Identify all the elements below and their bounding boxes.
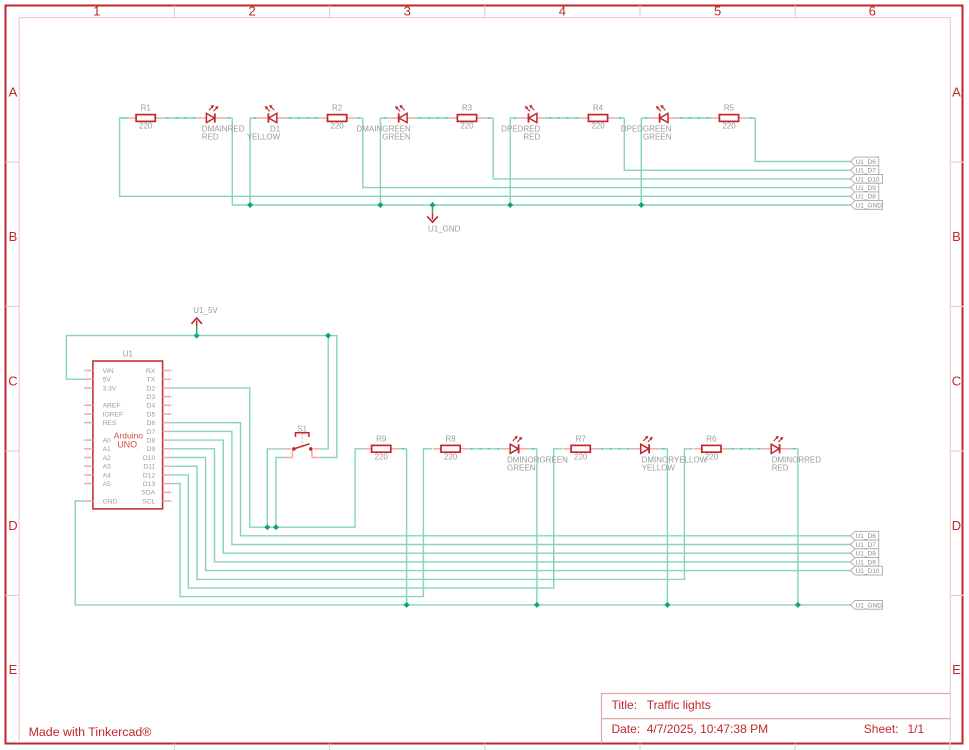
svg-text:VIN: VIN xyxy=(103,368,114,375)
svg-text:A5: A5 xyxy=(103,481,111,488)
ground flag U1_GND xyxy=(427,205,438,222)
svg-text:3.3V: 3.3V xyxy=(103,385,117,392)
svg-text:U1: U1 xyxy=(123,350,134,359)
svg-text:E: E xyxy=(9,662,18,677)
LED DMINORGREEN xyxy=(502,436,529,454)
svg-text:220: 220 xyxy=(722,122,736,131)
svg-text:5: 5 xyxy=(714,3,721,18)
svg-text:A: A xyxy=(9,84,18,99)
svg-text:U1_GND: U1_GND xyxy=(856,202,883,209)
resistor R1 xyxy=(128,115,163,122)
wire xyxy=(659,448,668,450)
LED DPEDGREEN xyxy=(650,105,677,123)
wire xyxy=(641,117,650,119)
U1 pin D11 xyxy=(163,465,172,467)
svg-text:D13: D13 xyxy=(143,481,156,488)
wire xyxy=(510,117,519,119)
svg-text:6: 6 xyxy=(869,3,876,18)
wire U1_GND net (bottom) xyxy=(75,501,850,605)
U1 pin GND xyxy=(84,500,93,502)
wire xyxy=(416,117,450,119)
svg-text:R7: R7 xyxy=(576,434,587,443)
U1 pin D6 xyxy=(163,422,172,424)
wire xyxy=(509,118,511,205)
wire U1_D13 net xyxy=(171,449,432,597)
LED DPEDRED xyxy=(519,105,546,123)
wire xyxy=(354,117,363,119)
wire xyxy=(536,449,538,605)
svg-text:R9: R9 xyxy=(376,434,387,443)
U1 pin A0 xyxy=(84,439,93,441)
junction xyxy=(264,524,270,530)
junction xyxy=(325,333,331,339)
wire U1_D12 net xyxy=(171,449,562,588)
svg-text:YELLOW: YELLOW xyxy=(642,463,676,472)
wire xyxy=(276,458,284,528)
wire xyxy=(677,117,712,119)
svg-text:U1_D7: U1_D7 xyxy=(856,168,877,175)
wire xyxy=(163,117,198,119)
wire xyxy=(545,117,580,119)
wire xyxy=(250,117,259,119)
svg-text:D2: D2 xyxy=(147,385,156,392)
wire U1_D10 net (bottom) xyxy=(171,458,850,571)
LED DMAINRED xyxy=(198,105,225,123)
junction xyxy=(638,202,644,208)
resistor R4 xyxy=(581,115,616,122)
wire U1_D2 net xyxy=(171,388,363,527)
U1 pin D13 xyxy=(163,483,172,485)
svg-text:RES: RES xyxy=(103,420,117,427)
U1 pin D3 xyxy=(163,396,172,398)
wire xyxy=(406,449,408,605)
svg-text:U1_GND: U1_GND xyxy=(856,602,883,609)
net flag U1_D7 (top) xyxy=(850,166,878,175)
svg-text:D: D xyxy=(952,518,961,533)
wire xyxy=(528,448,537,450)
svg-text:Made with Tinkercad®: Made with Tinkercad® xyxy=(29,725,152,739)
U1 pin D12 xyxy=(163,474,172,476)
wire xyxy=(728,448,763,450)
wire U1_D7 net xyxy=(624,118,850,170)
svg-text:B: B xyxy=(9,229,18,244)
svg-text:220: 220 xyxy=(591,122,605,131)
svg-text:RX: RX xyxy=(146,368,156,375)
svg-text:R3: R3 xyxy=(462,104,473,113)
svg-text:TX: TX xyxy=(147,377,156,384)
svg-text:Traffic lights: Traffic lights xyxy=(647,698,711,712)
U1 pin RX xyxy=(163,370,172,372)
wire U1_D6 net xyxy=(755,118,850,162)
wire U1_D7 net (bottom) xyxy=(171,431,850,544)
wire xyxy=(267,449,284,527)
junction xyxy=(247,202,253,208)
svg-text:GREEN: GREEN xyxy=(382,133,411,142)
svg-text:AREF: AREF xyxy=(103,403,121,410)
wire xyxy=(120,117,129,119)
svg-text:U1_D9: U1_D9 xyxy=(856,559,877,566)
wire U1_GND net xyxy=(232,118,850,205)
svg-text:D8: D8 xyxy=(147,438,156,445)
svg-text:RED: RED xyxy=(772,463,789,472)
wire xyxy=(285,117,319,119)
net flag U1_D8 (bottom) xyxy=(850,549,878,558)
svg-text:GREEN: GREEN xyxy=(507,463,536,472)
svg-text:R5: R5 xyxy=(724,104,735,113)
resistor R5 xyxy=(712,115,747,122)
svg-text:A2: A2 xyxy=(103,455,111,462)
net flag U1_D8 (top) xyxy=(850,192,878,201)
svg-text:Title:: Title: xyxy=(612,698,638,712)
resistor R3 xyxy=(450,115,485,122)
svg-text:R1: R1 xyxy=(141,104,152,113)
svg-text:1/1: 1/1 xyxy=(908,722,925,736)
resistor R8 xyxy=(433,445,468,452)
junction xyxy=(795,602,801,608)
svg-text:IOREF: IOREF xyxy=(103,411,123,418)
svg-text:220: 220 xyxy=(375,452,389,461)
wire xyxy=(789,448,798,450)
svg-text:D12: D12 xyxy=(143,472,156,479)
svg-text:RED: RED xyxy=(523,133,540,142)
junction xyxy=(194,333,200,339)
U1 pin A1 xyxy=(84,448,93,450)
wire xyxy=(379,118,381,205)
svg-text:D4: D4 xyxy=(147,403,156,410)
LED D1 xyxy=(259,105,286,123)
svg-text:UNO: UNO xyxy=(117,439,137,449)
wire xyxy=(640,118,642,205)
U1 pin D8 xyxy=(163,439,172,441)
svg-text:U1_D9: U1_D9 xyxy=(856,185,877,192)
svg-text:220: 220 xyxy=(705,452,719,461)
svg-text:1: 1 xyxy=(93,3,100,18)
net flag U1_D10 (top) xyxy=(850,175,882,184)
net flag U1_D6 (bottom) xyxy=(850,531,878,540)
net flag U1_GND (bottom) xyxy=(850,601,882,610)
junction xyxy=(430,202,436,208)
wire xyxy=(597,448,632,450)
svg-text:U1_D10: U1_D10 xyxy=(856,176,880,183)
LED DMINORYELLOW xyxy=(632,436,659,454)
junction xyxy=(404,602,410,608)
svg-text:E: E xyxy=(952,662,961,677)
svg-text:U1_5V: U1_5V xyxy=(193,306,218,315)
LED DMAINGREEN xyxy=(389,105,416,123)
U1 pin A3 xyxy=(84,465,93,467)
U1 pin D4 xyxy=(163,404,172,406)
svg-text:D11: D11 xyxy=(143,464,155,471)
U1 pin A4 xyxy=(84,474,93,476)
wire U1_D11 net xyxy=(171,449,693,580)
net flag U1_D9 (bottom) xyxy=(850,558,878,567)
svg-text:D9: D9 xyxy=(147,446,156,453)
svg-text:D3: D3 xyxy=(147,394,156,401)
svg-text:220: 220 xyxy=(139,122,153,131)
svg-text:R2: R2 xyxy=(332,104,343,113)
junction xyxy=(273,524,279,530)
net flag U1_D9 (top) xyxy=(850,183,878,192)
wire xyxy=(224,117,232,119)
svg-text:U1_D6: U1_D6 xyxy=(856,159,877,166)
LED DMINORRED xyxy=(763,436,790,454)
U1 pin D9 xyxy=(163,448,172,450)
svg-text:S1: S1 xyxy=(297,425,307,434)
svg-text:Sheet:: Sheet: xyxy=(864,722,899,736)
svg-text:2: 2 xyxy=(248,3,255,18)
svg-text:U1_D8: U1_D8 xyxy=(856,551,877,558)
U1 pin SDA xyxy=(163,491,172,493)
net flag U1_GND (top) xyxy=(850,201,882,210)
wire U1_D6 net (bottom) xyxy=(171,423,850,536)
svg-text:GREEN: GREEN xyxy=(643,133,672,142)
svg-text:D: D xyxy=(8,518,17,533)
wire U1_D9 net (bottom) xyxy=(171,449,850,562)
svg-text:A3: A3 xyxy=(103,464,111,471)
net flag U1_D7 (bottom) xyxy=(850,540,878,549)
U1 pin AREF xyxy=(84,404,93,406)
wire xyxy=(320,336,328,449)
svg-text:4/7/2025, 10:47:38 PM: 4/7/2025, 10:47:38 PM xyxy=(647,722,768,736)
svg-text:4: 4 xyxy=(559,3,566,18)
wire U1_5V net xyxy=(66,336,337,458)
svg-text:A: A xyxy=(952,84,961,99)
wire xyxy=(484,117,493,119)
svg-text:D7: D7 xyxy=(147,429,156,436)
svg-text:GND: GND xyxy=(103,498,118,505)
wire xyxy=(747,117,756,119)
junction xyxy=(377,202,383,208)
resistor R9 xyxy=(364,445,399,452)
svg-text:U1_D7: U1_D7 xyxy=(856,542,877,549)
U1 pin SCL xyxy=(163,500,172,502)
pushbutton S1 xyxy=(284,433,320,458)
resistor R6 xyxy=(694,445,729,452)
power flag U1_5V xyxy=(192,318,202,336)
svg-text:SCL: SCL xyxy=(142,498,155,505)
svg-text:U1_GND: U1_GND xyxy=(428,224,461,233)
svg-text:A4: A4 xyxy=(103,472,111,479)
svg-text:5V: 5V xyxy=(103,377,112,384)
svg-text:A0: A0 xyxy=(103,438,111,445)
wire xyxy=(467,448,502,450)
svg-text:A1: A1 xyxy=(103,446,111,453)
svg-text:220: 220 xyxy=(330,122,344,131)
wire xyxy=(616,117,625,119)
wire U1_D8 net (bottom) xyxy=(171,440,850,553)
junction xyxy=(664,602,670,608)
U1 pin VIN xyxy=(84,370,93,372)
junction xyxy=(507,202,513,208)
U1 pin TX xyxy=(163,378,172,380)
wire xyxy=(797,449,799,605)
svg-text:RED: RED xyxy=(202,133,219,142)
svg-text:3: 3 xyxy=(404,3,411,18)
svg-text:D10: D10 xyxy=(143,455,156,462)
svg-text:U1_D6: U1_D6 xyxy=(856,533,877,540)
svg-text:220: 220 xyxy=(444,452,458,461)
resistor R2 xyxy=(320,115,355,122)
svg-text:U1_D8: U1_D8 xyxy=(856,194,877,201)
svg-text:YELLOW: YELLOW xyxy=(247,133,281,142)
net flag U1_D10 (bottom) xyxy=(850,566,882,575)
svg-text:C: C xyxy=(8,373,17,388)
svg-text:R6: R6 xyxy=(706,434,717,443)
U1 pin A5 xyxy=(84,483,93,485)
svg-text:D5: D5 xyxy=(147,411,156,418)
wire U1_D10 net xyxy=(493,118,850,179)
svg-text:SDA: SDA xyxy=(141,490,155,497)
U1 pin 5V xyxy=(84,378,93,380)
U1 pin RES xyxy=(84,422,93,424)
U1 pin D2 xyxy=(163,387,172,389)
U1 pin A2 xyxy=(84,457,93,459)
svg-text:D6: D6 xyxy=(147,420,156,427)
net flag U1_D6 (top) xyxy=(850,157,878,166)
wire U1_D8 net xyxy=(120,118,851,196)
svg-text:B: B xyxy=(952,229,961,244)
U1 pin D5 xyxy=(163,413,172,415)
svg-text:C: C xyxy=(952,373,961,388)
wire U1_D9 net xyxy=(363,118,851,188)
svg-text:Date:: Date: xyxy=(612,722,641,736)
svg-text:R8: R8 xyxy=(445,434,456,443)
wire xyxy=(666,449,668,605)
resistor R7 xyxy=(563,445,598,452)
wire xyxy=(249,118,251,205)
svg-text:U1_D10: U1_D10 xyxy=(856,568,880,575)
arduino uno U1 xyxy=(93,361,163,509)
U1 pin 3.3V xyxy=(84,387,93,389)
U1 pin D7 xyxy=(163,430,172,432)
junction xyxy=(534,602,540,608)
svg-text:220: 220 xyxy=(574,452,588,461)
wire xyxy=(380,117,389,119)
wire xyxy=(399,448,407,450)
svg-text:R4: R4 xyxy=(593,104,604,113)
svg-text:220: 220 xyxy=(460,122,474,131)
U1 pin D10 xyxy=(163,457,172,459)
U1 pin IOREF xyxy=(84,413,93,415)
